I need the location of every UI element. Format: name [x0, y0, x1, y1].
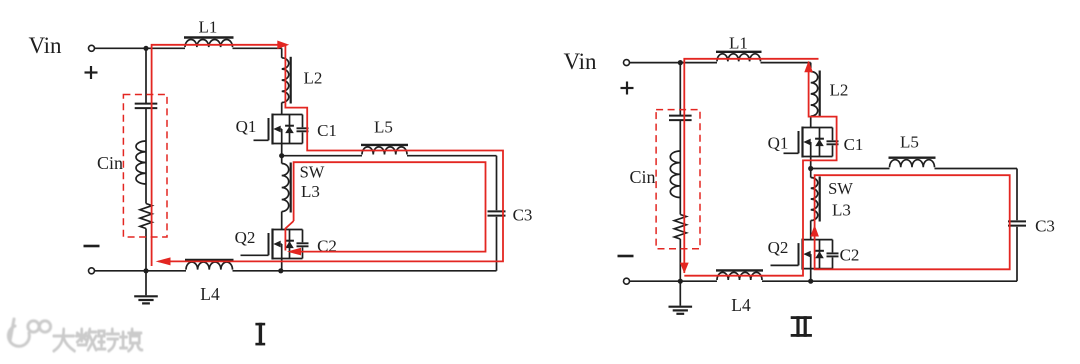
current arrow down (circuit II): [680, 263, 689, 274]
svg-text:L1: L1: [729, 34, 748, 53]
inductor L5 (circuit I): [361, 145, 408, 155]
dashed box Cin (circuit II): [656, 110, 700, 249]
svg-text:Vin: Vin: [28, 33, 62, 58]
label Q1 (circuit II): [768, 134, 789, 153]
svg-text:Q2: Q2: [235, 228, 256, 247]
label L1 (circuit I): [199, 18, 218, 37]
ground (circuit II): [669, 281, 693, 314]
wire red loop through Q1 (circuit II): [684, 62, 836, 276]
node Vin- terminal (circuit I): [89, 268, 95, 274]
wire Cin top lead (circuit II): [679, 63, 681, 116]
wire Q1 source to SW (circuit II): [810, 157, 812, 169]
transistor Q2 (circuit I): [241, 229, 309, 260]
label C3 (circuit I): [513, 206, 533, 225]
label C2 (circuit II): [840, 246, 860, 265]
minus sign (circuit II): [618, 255, 634, 258]
wire Cin bottom lead (circuit II): [679, 239, 681, 281]
node SW junction (circuit II): [808, 166, 813, 171]
svg-text:L1: L1: [199, 18, 218, 37]
wire SW to L5 (circuit I): [282, 155, 497, 157]
svg-text:Vin: Vin: [563, 49, 597, 74]
inductor Cin ESL (circuit II): [670, 151, 680, 198]
label L5 (circuit II): [900, 133, 919, 152]
inductor L1 (circuit II): [716, 52, 762, 62]
watermark logo: [8, 319, 50, 346]
resistor Cin ESR (circuit I): [140, 204, 152, 229]
wire bottom rail (circuit I): [95, 270, 497, 272]
node SW junction (circuit I): [279, 153, 284, 158]
inductor L4 (circuit II): [716, 270, 763, 280]
node Vin+ terminal (circuit I): [89, 45, 95, 51]
label L4 (circuit I): [200, 284, 220, 304]
label L1 (circuit II): [729, 34, 748, 53]
svg-text:C1: C1: [317, 121, 337, 140]
wire top rail (circuit I): [95, 47, 282, 49]
wire top rail (circuit II): [630, 62, 811, 64]
minus sign (circuit I): [84, 245, 100, 248]
wire output right side (circuit II): [1016, 169, 1018, 282]
label Cin (circuit II): [629, 167, 655, 187]
svg-text:SW: SW: [300, 163, 325, 182]
label C3 (circuit II): [1035, 217, 1055, 236]
svg-text:C1: C1: [844, 135, 864, 154]
wire Cin mid lead (circuit I): [145, 108, 147, 141]
wire Cin top lead (circuit I): [145, 48, 147, 103]
label Cin (circuit I): [97, 153, 123, 173]
wire Q2 source to rail (circuit II): [810, 269, 812, 282]
ground (circuit I): [134, 271, 158, 304]
inductor L1 (circuit I): [184, 38, 234, 48]
inductor L4 (circuit I): [185, 260, 234, 270]
label SW (circuit II): [828, 179, 853, 198]
capacitor Cin plates (circuit I): [135, 104, 158, 109]
wire SW to L5 (circuit II): [811, 168, 1017, 170]
svg-text:Cin: Cin: [629, 167, 655, 187]
resistor Cin ESR (circuit II): [674, 215, 686, 240]
label C2 (circuit I): [317, 237, 337, 256]
svg-text:L4: L4: [200, 284, 220, 304]
wire red output loop (circuit II): [814, 175, 1010, 269]
inductor L5 (circuit II): [889, 158, 936, 168]
wire Cin lower lead (circuit I): [145, 184, 147, 204]
svg-text:C2: C2: [317, 237, 337, 256]
svg-text:Q1: Q1: [768, 134, 789, 153]
current arrow left (circuit I): [156, 257, 171, 265]
dashed box Cin (circuit I): [123, 95, 167, 238]
inductor Cin ESL (circuit I): [136, 141, 146, 184]
wire drain drop (circuit I): [281, 48, 283, 114]
wire bottom rail (circuit II): [630, 280, 1018, 282]
plus sign (circuit I): [85, 66, 98, 79]
wire red loop B jog (circuit I): [285, 221, 293, 251]
plus sign (circuit II): [621, 82, 634, 95]
inductor L2 (circuit I): [282, 57, 291, 104]
wire drain drop (circuit II): [810, 63, 812, 128]
svg-text:C3: C3: [513, 206, 533, 225]
node Vin+ terminal (circuit II): [624, 60, 630, 66]
label Vin (circuit II): [563, 49, 597, 74]
label Vin (circuit I): [28, 33, 62, 58]
wire SW to L3 (circuit I): [281, 156, 283, 230]
wire Q1 source to SW (circuit I): [281, 144, 283, 156]
svg-text:L2: L2: [304, 69, 323, 88]
label SW (circuit I): [300, 163, 325, 182]
node input junction bottom (circuit II): [678, 279, 683, 284]
transistor Q2 (circuit II): [771, 239, 839, 270]
wire red loop B (circuit I): [294, 162, 486, 251]
label L5 (circuit I): [374, 118, 393, 137]
label L2 (circuit I): [304, 69, 323, 88]
transistor Q1 (circuit I): [254, 114, 309, 145]
current arrow up at Q2 (circuit II): [810, 225, 819, 237]
current arrow left at Q2 (circuit I): [287, 248, 301, 256]
wire Cin lower lead (circuit II): [679, 198, 681, 215]
svg-text:C2: C2: [840, 246, 860, 265]
wire Q2 source to rail (circuit I): [281, 259, 283, 271]
wire output right side (circuit I): [496, 156, 498, 271]
watermark text: [54, 329, 142, 351]
node Q2-rail junction (circuit II): [808, 279, 813, 284]
current arrow right (circuit I): [277, 41, 289, 50]
current arrow up at L2 (circuit II): [804, 61, 813, 73]
capacitor Cin plates (circuit II): [669, 116, 692, 121]
label C1 (circuit II): [844, 135, 864, 154]
svg-text:Q1: Q1: [236, 117, 257, 136]
node input junction top (circuit II): [678, 60, 683, 65]
node Vin- terminal (circuit II): [624, 278, 630, 284]
node Q2-rail junction (circuit I): [278, 268, 283, 273]
svg-text:L3: L3: [832, 201, 851, 220]
svg-text:Q2: Q2: [768, 238, 789, 257]
wire Cin bottom lead (circuit I): [145, 229, 147, 271]
wire red loop top (circuit II): [684, 59, 818, 273]
svg-text:L5: L5: [900, 133, 919, 152]
svg-text:L5: L5: [374, 118, 393, 137]
label Q2 (circuit I): [235, 228, 256, 247]
wire SW to L3 (circuit II): [810, 169, 812, 240]
svg-text:L3: L3: [301, 182, 320, 201]
label L4 (circuit II): [731, 295, 751, 315]
label I (circuit I): [255, 323, 265, 346]
node input junction bottom (circuit I): [143, 268, 148, 273]
wire red loop A right descent (circuit I): [159, 45, 504, 262]
wire red loop A top (circuit I): [152, 45, 279, 266]
svg-text:L2: L2: [830, 81, 849, 100]
label L3 (circuit I): [301, 182, 320, 201]
label Q2 (circuit II): [768, 238, 789, 257]
svg-text:L4: L4: [731, 295, 751, 315]
capacitor C3 (circuit I): [488, 211, 506, 215]
inductor L3 (circuit II): [811, 177, 820, 222]
svg-text:Cin: Cin: [97, 153, 123, 173]
inductor L3 (circuit I): [282, 163, 291, 213]
inductor L2 (circuit II): [811, 71, 820, 118]
svg-text:C3: C3: [1035, 217, 1055, 236]
label Q1 (circuit I): [236, 117, 257, 136]
svg-text:SW: SW: [828, 179, 853, 198]
wire Cin mid lead (circuit II): [679, 120, 681, 151]
transistor Q1 (circuit II): [784, 127, 839, 158]
label C1 (circuit I): [317, 121, 337, 140]
label L2 (circuit II): [830, 81, 849, 100]
label II (circuit II): [791, 316, 812, 337]
node input junction top (circuit I): [143, 46, 148, 51]
capacitor C3 (circuit II): [1008, 221, 1026, 225]
label L3 (circuit II): [832, 201, 851, 220]
